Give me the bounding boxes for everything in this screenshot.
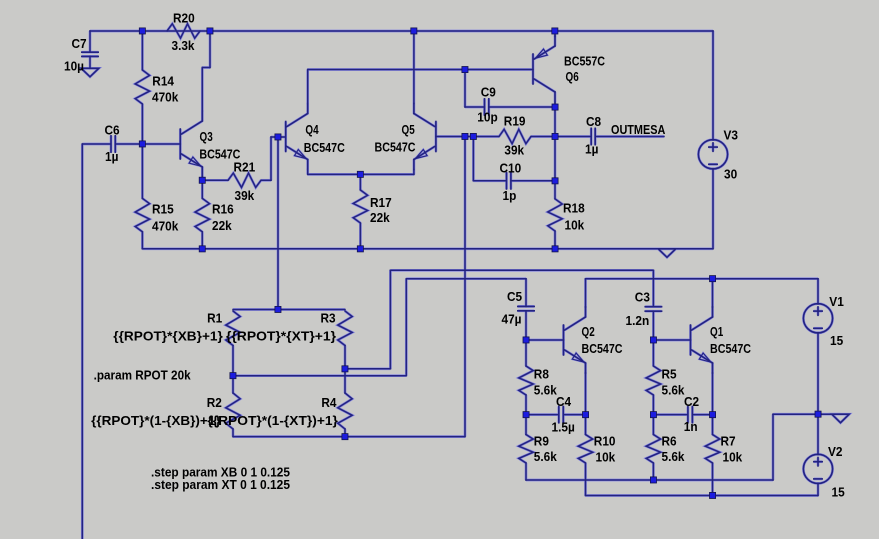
svg-text:5.6k: 5.6k <box>662 449 686 464</box>
svg-text:R20: R20 <box>173 11 195 26</box>
svg-text:C6: C6 <box>105 123 120 138</box>
svg-text:C10: C10 <box>500 161 522 176</box>
svg-text:{{RPOT}*(1-{XB})+1}: {{RPOT}*(1-{XB})+1} <box>91 413 221 428</box>
svg-text:OUTMESA: OUTMESA <box>611 122 666 137</box>
svg-text:39k: 39k <box>235 188 255 203</box>
svg-text:{{RPOT}*{XT}+1}: {{RPOT}*{XT}+1} <box>226 329 336 344</box>
svg-text:5.6k: 5.6k <box>534 383 558 398</box>
svg-text:10k: 10k <box>565 218 585 233</box>
svg-text:R7: R7 <box>721 434 736 449</box>
svg-text:Q6: Q6 <box>566 69 579 84</box>
svg-text:5.6k: 5.6k <box>662 383 686 398</box>
svg-text:22k: 22k <box>370 210 390 225</box>
svg-text:BC547C: BC547C <box>710 341 751 356</box>
svg-text:R8: R8 <box>534 367 549 382</box>
svg-text:1.2n: 1.2n <box>626 313 650 328</box>
svg-text:{{RPOT}*{XB}+1}: {{RPOT}*{XB}+1} <box>113 329 223 344</box>
svg-text:470k: 470k <box>152 219 179 234</box>
svg-text:R14: R14 <box>152 74 174 89</box>
svg-text:C5: C5 <box>507 289 522 304</box>
svg-text:10k: 10k <box>596 450 616 465</box>
svg-text:R5: R5 <box>662 367 677 382</box>
svg-text:R15: R15 <box>152 202 174 217</box>
svg-text:Q2: Q2 <box>582 324 595 339</box>
svg-text:V1: V1 <box>829 294 844 309</box>
svg-text:BC547C: BC547C <box>375 140 416 155</box>
svg-text:10p: 10p <box>477 109 497 124</box>
svg-text:22k: 22k <box>212 218 232 233</box>
svg-text:5.6k: 5.6k <box>534 449 558 464</box>
svg-text:V2: V2 <box>828 444 843 459</box>
svg-text:V3: V3 <box>724 128 739 143</box>
svg-text:39k: 39k <box>504 142 524 157</box>
svg-text:15: 15 <box>832 485 845 500</box>
svg-text:R18: R18 <box>563 201 585 216</box>
svg-text:R10: R10 <box>594 434 616 449</box>
svg-text:C2: C2 <box>684 394 699 409</box>
svg-text:Q4: Q4 <box>305 122 319 137</box>
svg-text:.step param XT 0 1 0.125: .step param XT 0 1 0.125 <box>151 477 290 492</box>
svg-text:R21: R21 <box>234 160 256 175</box>
svg-text:C4: C4 <box>556 394 572 409</box>
svg-text:R1: R1 <box>207 310 222 325</box>
svg-text:BC547C: BC547C <box>582 341 623 356</box>
svg-text:R19: R19 <box>504 114 526 129</box>
svg-text:Q5: Q5 <box>402 122 415 137</box>
svg-text:15: 15 <box>830 333 843 348</box>
svg-text:R17: R17 <box>370 195 392 210</box>
svg-text:.param RPOT 20k: .param RPOT 20k <box>94 367 192 382</box>
svg-text:1.5µ: 1.5µ <box>552 420 575 435</box>
svg-text:30: 30 <box>724 167 737 182</box>
svg-text:R16: R16 <box>212 202 234 217</box>
svg-text:1n: 1n <box>684 419 698 434</box>
svg-text:47µ: 47µ <box>502 312 522 327</box>
svg-text:R3: R3 <box>321 311 336 326</box>
svg-text:C8: C8 <box>586 114 601 129</box>
svg-text:10µ: 10µ <box>64 59 84 74</box>
svg-text:BC557C: BC557C <box>564 54 605 69</box>
svg-text:R6: R6 <box>662 434 677 449</box>
svg-text:C9: C9 <box>481 85 496 100</box>
svg-text:BC547C: BC547C <box>304 140 345 155</box>
svg-text:R9: R9 <box>534 434 549 449</box>
svg-text:1µ: 1µ <box>105 149 118 164</box>
svg-text:R2: R2 <box>207 395 222 410</box>
svg-text:1p: 1p <box>503 188 517 203</box>
svg-text:R4: R4 <box>321 395 337 410</box>
svg-text:3.3k: 3.3k <box>172 38 196 53</box>
svg-text:10k: 10k <box>723 450 743 465</box>
svg-text:{{RPOT}*(1-{XT})+1}: {{RPOT}*(1-{XT})+1} <box>207 413 338 428</box>
svg-text:Q1: Q1 <box>710 324 723 339</box>
svg-text:1µ: 1µ <box>585 142 598 157</box>
svg-text:C7: C7 <box>72 36 87 51</box>
svg-text:Q3: Q3 <box>200 129 213 144</box>
svg-text:470k: 470k <box>152 90 179 105</box>
svg-text:C3: C3 <box>635 290 650 305</box>
